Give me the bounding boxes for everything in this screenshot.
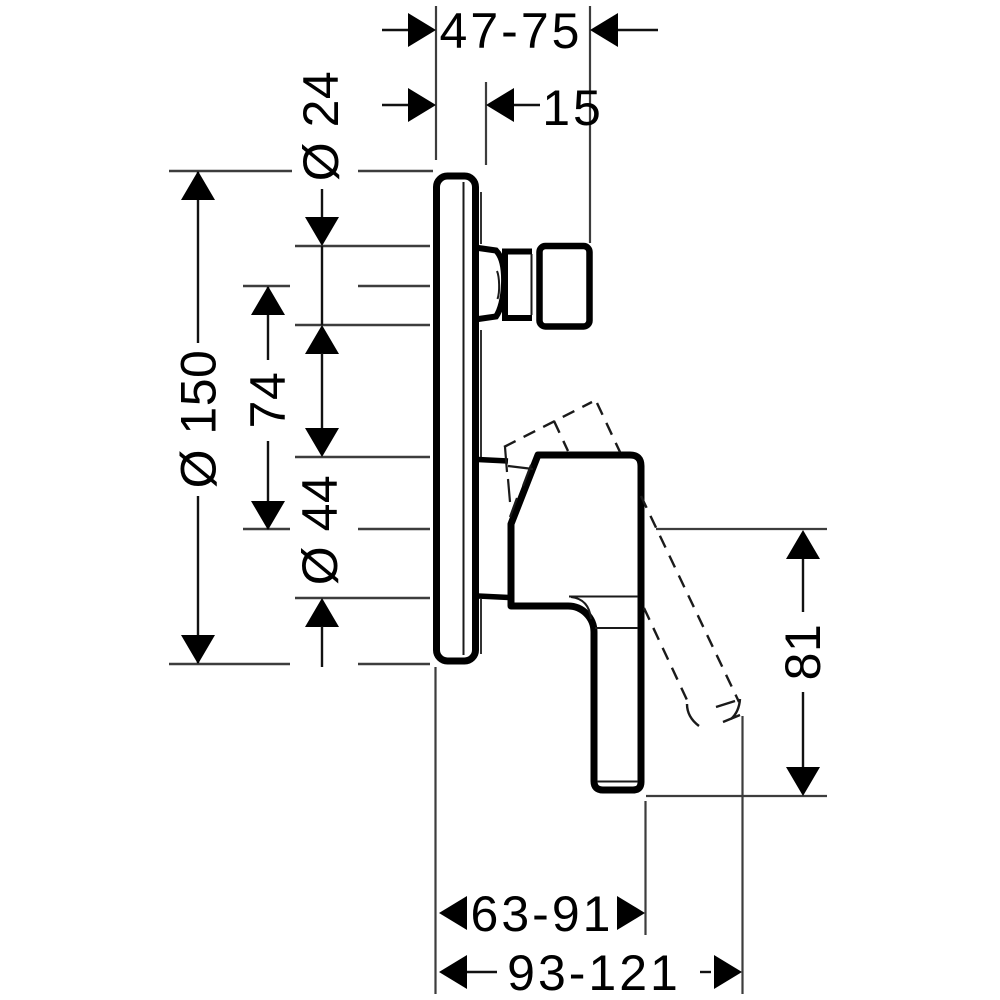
extension line bottom left (plate front): [434, 667, 436, 994]
dashed lever top edge: [504, 402, 592, 447]
dashed lever long edge upper segment: [597, 403, 620, 452]
tick y457 (Ø44 top): [295, 456, 430, 458]
dashed lever position: pivot dashes: [505, 447, 533, 517]
tick y171 (Ø150 top / plate top): [169, 170, 292, 172]
wall plate (escutcheon, side view): [437, 176, 476, 661]
dimension 74: [267, 287, 269, 529]
svg-text:Ø 24: Ø 24: [293, 71, 349, 181]
tick y529 (74 bottom / handle centerline): [243, 528, 290, 530]
lever upper seam: [595, 627, 638, 629]
dimension 93-121: [439, 955, 467, 989]
tick y246 (Ø24 top): [295, 245, 430, 247]
dashed lever bottom edge upper bit: [554, 421, 568, 451]
wall plate inner face line: [463, 182, 465, 655]
body/lever seam: [569, 596, 638, 598]
tick y529 right (81 top): [656, 528, 827, 530]
extension line bottom right (dashed lever front): [741, 716, 743, 994]
extension line left (front face, top): [435, 6, 437, 160]
dimension 47-75: [382, 29, 658, 31]
svg-text:93-121: 93-121: [507, 945, 681, 1000]
fillet echo line: [571, 597, 591, 619]
diverter knob middle cylinder: [505, 252, 532, 319]
svg-text:74: 74: [240, 372, 296, 429]
tick y796 right (81 bottom): [646, 795, 827, 797]
handle body and lever outline: [511, 455, 641, 790]
dashed lever long edge lower segment: [641, 496, 739, 702]
svg-text:47-75: 47-75: [440, 3, 583, 59]
svg-text:81: 81: [775, 624, 831, 681]
dimension Ø44: [305, 428, 339, 457]
extension line bottom mid (lever front): [644, 801, 646, 935]
dimension 63-91: [439, 896, 467, 930]
tick y286 (74 top / spout centerline): [243, 285, 290, 287]
diverter knob neck line: [497, 271, 499, 299]
dimension Ø150: [197, 172, 199, 663]
dashed lever bottom edge: [644, 608, 687, 700]
dashed lever end hook: [687, 704, 699, 726]
handle collar top edge: [478, 460, 508, 462]
dimension 15: [382, 104, 540, 106]
extension line plate back (15): [485, 82, 487, 165]
svg-text:15: 15: [542, 80, 604, 136]
dashed lever end cap: [731, 699, 740, 719]
tick y598 (Ø44 bottom): [295, 597, 430, 599]
dimension Ø24: [321, 189, 323, 222]
diverter knob end cap: [540, 246, 590, 327]
dimension 81: [802, 558, 804, 768]
lever end seam: [597, 781, 638, 783]
svg-text:Ø 150: Ø 150: [171, 350, 227, 489]
diverter knob collar: [479, 248, 505, 319]
extension line spout end (47-75): [589, 6, 591, 243]
tick y664 (Ø150 bottom): [169, 663, 290, 665]
svg-text:63-91: 63-91: [471, 886, 614, 942]
tick y325 (Ø24 bottom): [295, 324, 430, 326]
svg-text:Ø 44: Ø 44: [292, 475, 348, 585]
handle collar bottom edge: [478, 596, 510, 598]
wall plate back edge line: [480, 192, 482, 654]
